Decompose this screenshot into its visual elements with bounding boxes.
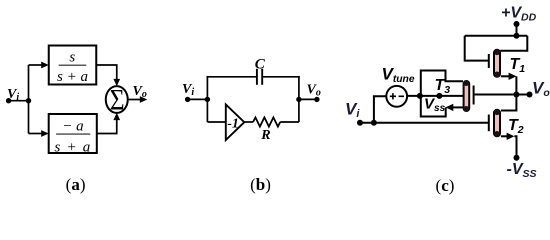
junction dot Vi (b) xyxy=(205,97,210,102)
wire summer output arrow Vo (a) xyxy=(128,96,148,103)
node -VSS terminal dot xyxy=(514,155,520,161)
wire T1 drain lead xyxy=(500,36,527,51)
wire Vi lead (b) xyxy=(188,98,208,100)
transistor T2 channel xyxy=(494,109,500,137)
wire to block1 with arrow (a) xyxy=(29,62,49,69)
wire T3 gate to Vo line xyxy=(475,94,530,96)
svg-text:− a: − a xyxy=(62,118,83,134)
wire Vo lead (b) xyxy=(299,98,317,100)
junction dot Vss node xyxy=(436,93,442,99)
wire T1 gate loop xyxy=(465,36,488,61)
wire resistor to right vertical (b) xyxy=(280,121,299,123)
svg-text:s + a: s + a xyxy=(55,139,92,155)
wire T1 source lead with arrow xyxy=(501,73,517,80)
wire T2 source to -VSS xyxy=(514,136,516,157)
wire Vi line to T2 gate xyxy=(360,122,488,124)
node VDD terminal dot xyxy=(514,21,520,27)
junction dot Vtune branch xyxy=(371,120,377,126)
wire to block2 with arrow (a) xyxy=(29,130,49,137)
block1 fraction bar xyxy=(59,64,87,66)
wire VDD rail xyxy=(465,35,528,37)
junction dot Vo (b) xyxy=(296,97,301,102)
node Vo terminal dot (c) xyxy=(527,92,533,98)
op-amp inverting amplifier -1 xyxy=(226,105,245,141)
junction dot VDD rail xyxy=(514,33,520,39)
svg-text:C: C xyxy=(255,56,266,72)
wire T3 source lead with arrow xyxy=(446,104,464,111)
block s/(s+a) xyxy=(49,46,97,85)
node Vo terminal dot (b) xyxy=(314,97,319,102)
block -a/(s+a) xyxy=(49,114,97,153)
wire top left to capacitor (b) xyxy=(207,76,257,78)
wire amplifier to resistor (b) xyxy=(244,121,253,123)
wire VDD stub xyxy=(516,24,518,36)
svg-text:s + a: s + a xyxy=(57,69,88,85)
node Vi terminal dot (a) xyxy=(6,98,11,103)
svg-text:R: R xyxy=(260,128,270,143)
wire T2 drain lead xyxy=(501,95,517,111)
transistor T3 channel xyxy=(464,80,470,111)
wire capacitor to right vertical (b) xyxy=(263,76,300,78)
transistor T2 gate plate xyxy=(488,115,490,132)
junction dot Vo column xyxy=(513,92,519,98)
resistor R zigzag xyxy=(253,117,280,126)
wire block2 output to summer (a) xyxy=(97,113,120,134)
svg-text:(a): (a) xyxy=(66,175,86,194)
junction dot loop left xyxy=(417,93,423,99)
wire bottom left to amplifier (b) xyxy=(207,121,225,123)
junction dot input branch (a) xyxy=(26,98,31,103)
svg-text:(c): (c) xyxy=(436,176,455,195)
wire input branch vertical (a) xyxy=(28,65,30,134)
svg-text:-1: -1 xyxy=(227,117,239,132)
wire right vertical (b) xyxy=(298,76,300,122)
wire Vtune to T3 bulk xyxy=(407,95,464,97)
wire Vtune left branch xyxy=(374,96,386,123)
wire left vertical (b) xyxy=(206,76,208,122)
node Vi terminal dot (c) xyxy=(357,120,363,126)
svg-text:s: s xyxy=(69,50,75,66)
wire T3 drain-source loop xyxy=(421,71,463,117)
wire Vi lead (a) xyxy=(9,100,29,102)
summing junction circle xyxy=(106,86,128,113)
wire T2 source lead with arrow xyxy=(501,133,515,140)
Vtune minus sign xyxy=(399,95,404,97)
wire block1 output to summer (a) xyxy=(96,65,120,86)
transistor T1 channel xyxy=(494,49,500,77)
transistor T1 gate plate xyxy=(488,54,490,68)
block2 fraction bar xyxy=(56,133,90,135)
svg-text:(b): (b) xyxy=(250,175,271,194)
wire T1 source to Vo xyxy=(515,76,517,94)
voltage source Vtune xyxy=(386,86,407,107)
transistor T3 gate plate xyxy=(473,86,475,105)
svg-text:Σ: Σ xyxy=(110,84,125,117)
node Vi terminal dot (b) xyxy=(185,97,190,102)
Vtune plus sign xyxy=(390,93,396,99)
capacitor C plates xyxy=(257,69,262,85)
